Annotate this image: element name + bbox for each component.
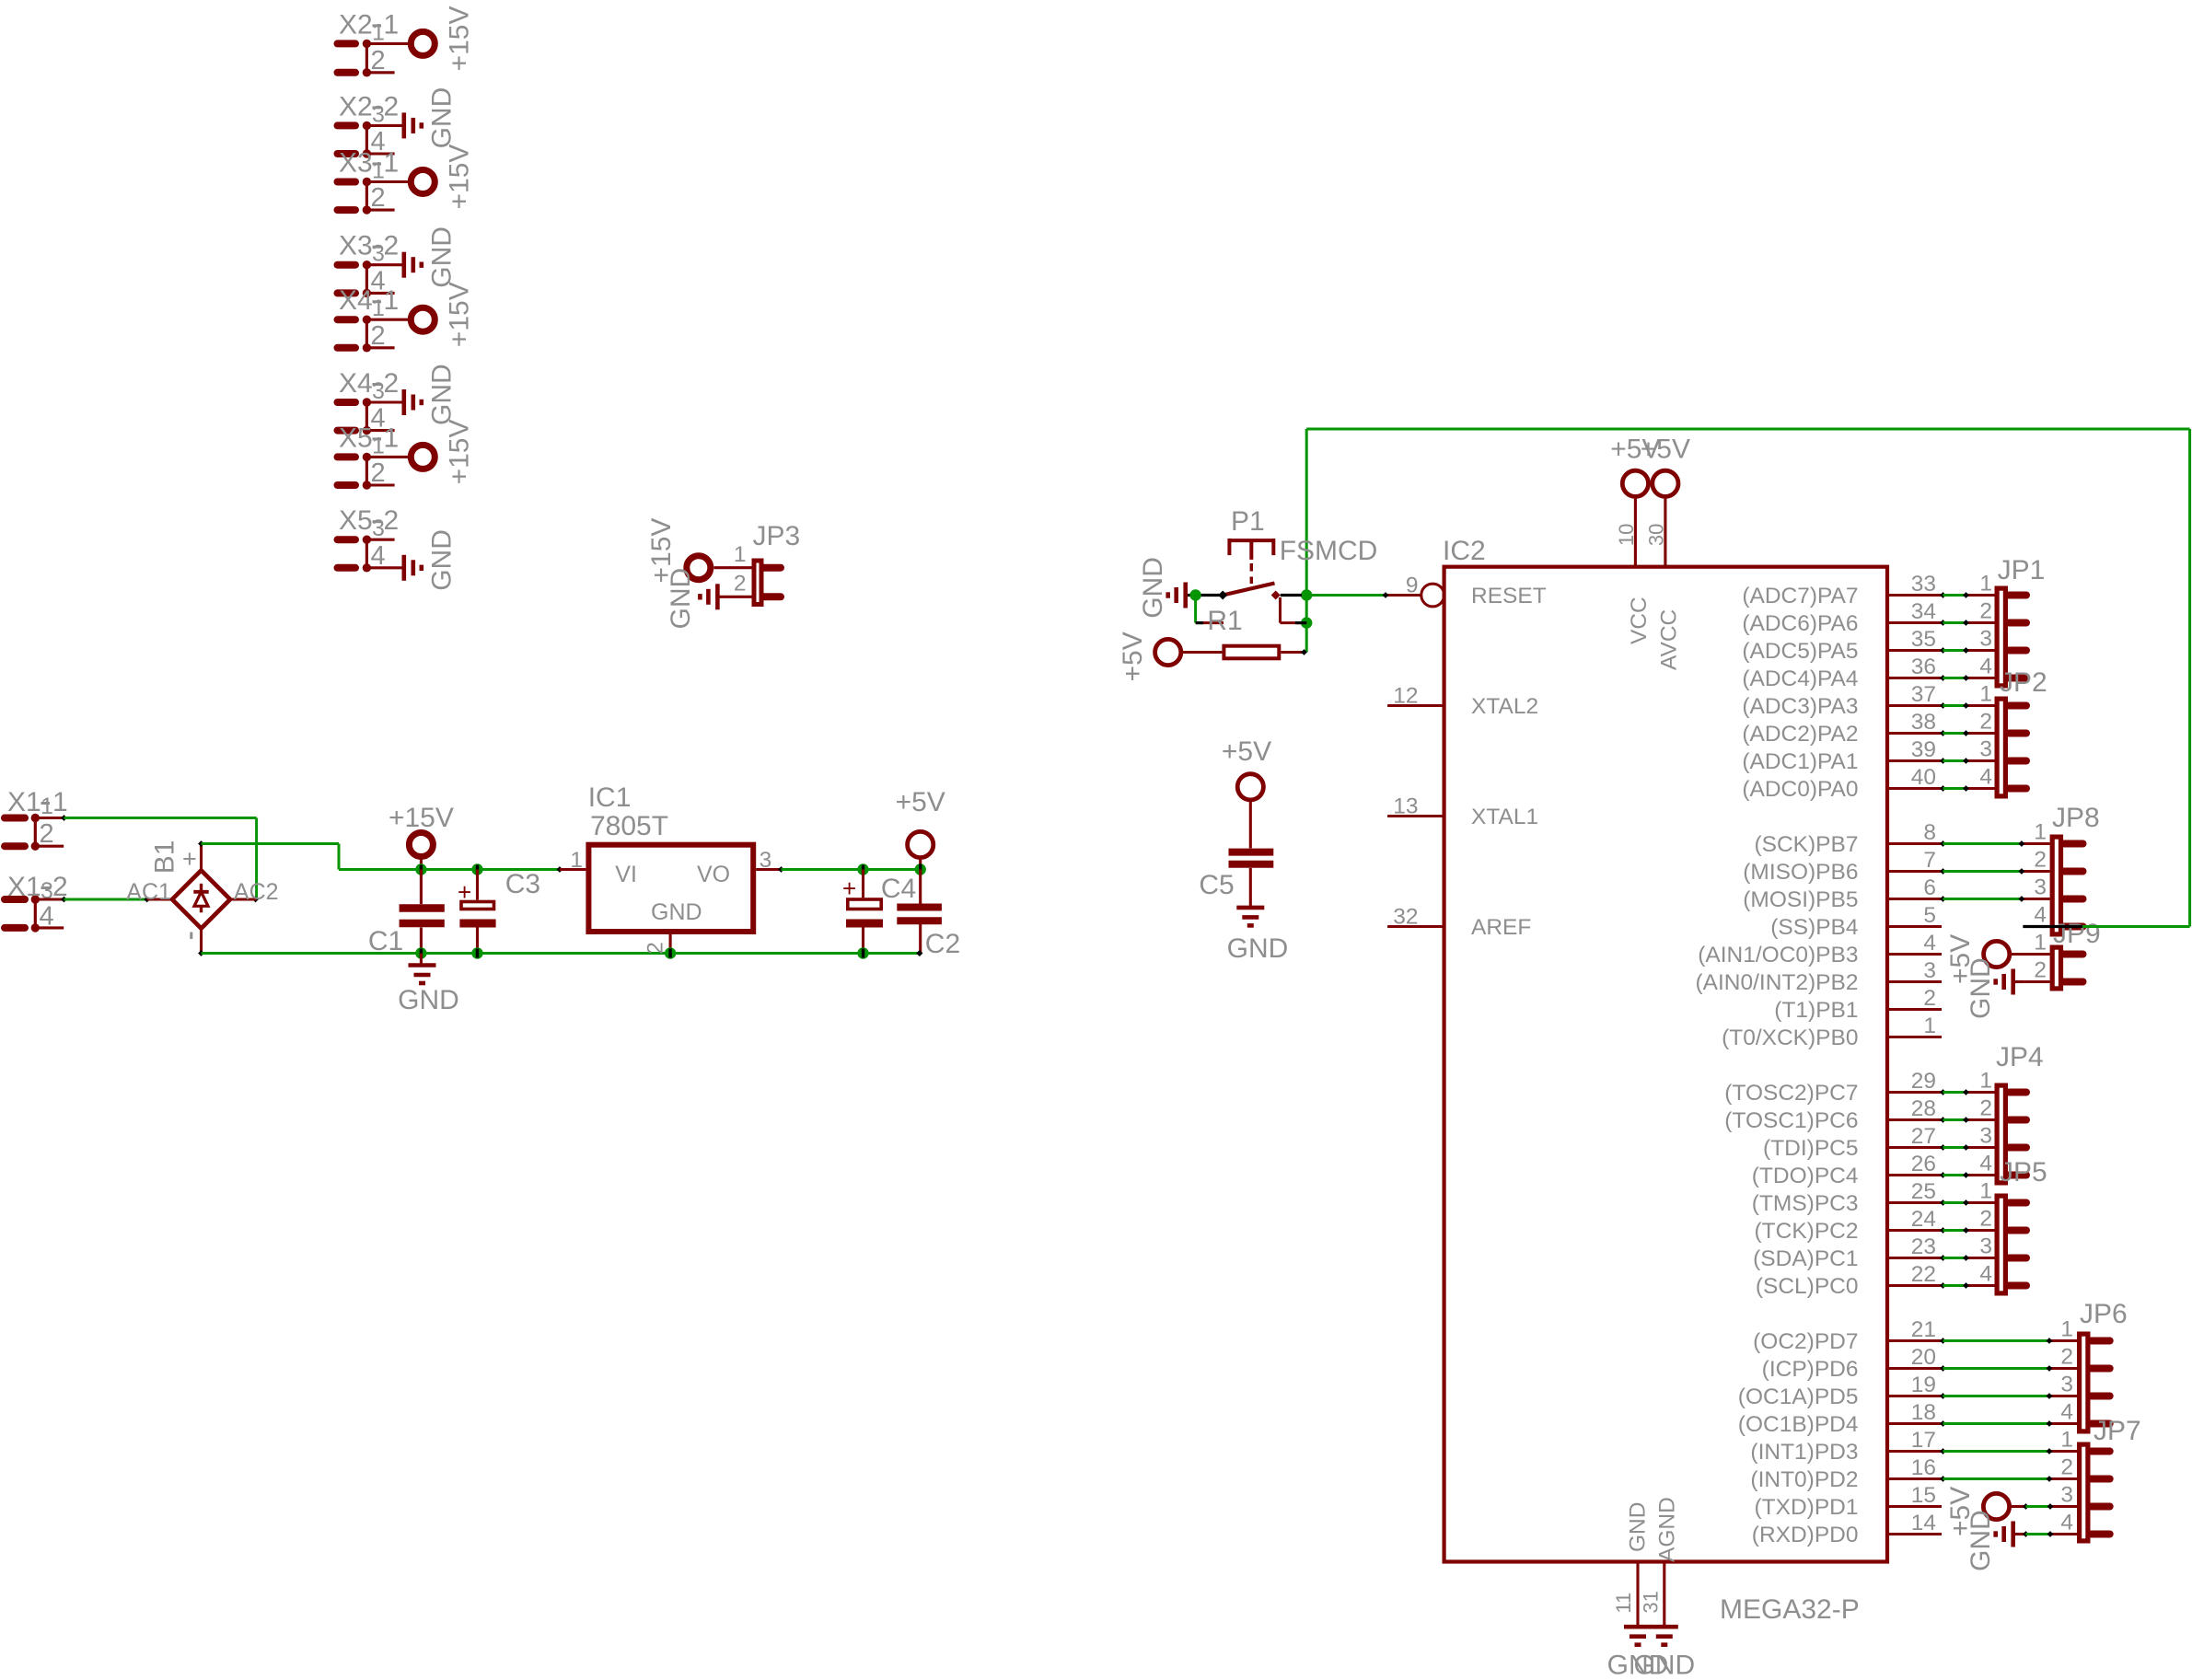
svg-text:5: 5 bbox=[1923, 903, 1936, 928]
svg-text:36: 36 bbox=[1911, 655, 1936, 679]
supply +15V at rail bbox=[409, 833, 433, 857]
svg-text:4: 4 bbox=[1979, 765, 1992, 790]
svg-text:2: 2 bbox=[371, 46, 386, 75]
svg-text:JP6: JP6 bbox=[2080, 1299, 2128, 1329]
svg-text:GND: GND bbox=[426, 364, 457, 425]
connector X5-1 pin stubs bbox=[338, 453, 356, 460]
svg-text:9: 9 bbox=[1406, 574, 1419, 598]
svg-text:JP9: JP9 bbox=[2053, 919, 2101, 949]
pin 4 of JP1 bbox=[1967, 677, 1995, 679]
svg-text:(ADC1)PA1: (ADC1)PA1 bbox=[1742, 749, 1858, 774]
svg-text:2: 2 bbox=[371, 183, 386, 213]
svg-text:39: 39 bbox=[1911, 737, 1936, 762]
wire X3-1 pin1 to +15V bbox=[366, 180, 408, 183]
capacitor C1 bbox=[420, 870, 423, 905]
ground at JP3 bbox=[715, 584, 720, 609]
junction IC1 pin2 bbox=[665, 947, 676, 958]
svg-text:4: 4 bbox=[2034, 903, 2047, 928]
pin 3 of JP6 bbox=[2051, 1395, 2078, 1397]
svg-text:15: 15 bbox=[1911, 1483, 1936, 1508]
svg-text:(SCL)PC0: (SCL)PC0 bbox=[1756, 1274, 1859, 1299]
wire RESET long net bbox=[1306, 428, 2189, 431]
wire X5-1 tie bbox=[365, 457, 368, 485]
svg-text:C3: C3 bbox=[505, 869, 540, 899]
wire X4-2 free pin line bbox=[366, 429, 394, 432]
svg-text:18: 18 bbox=[1911, 1400, 1936, 1425]
svg-text:3: 3 bbox=[2034, 875, 2047, 900]
svg-text:1: 1 bbox=[41, 794, 53, 819]
svg-text:23: 23 bbox=[1911, 1234, 1936, 1259]
wire X4-1 tie bbox=[365, 319, 368, 348]
pin 3 (AIN0/INT2)PB2 bbox=[1887, 980, 1942, 983]
pin 34 (ADC6)PA6 bbox=[1887, 621, 1942, 624]
svg-text:(TDO)PC4: (TDO)PC4 bbox=[1752, 1164, 1859, 1188]
svg-text:37: 37 bbox=[1911, 682, 1936, 707]
svg-text:32: 32 bbox=[1393, 905, 1418, 930]
svg-text:RESET: RESET bbox=[1471, 584, 1547, 608]
pin X1-2 pin3 line bbox=[35, 898, 63, 900]
pin 3 of JP4 bbox=[1967, 1146, 1995, 1149]
svg-text:JP3: JP3 bbox=[753, 521, 801, 551]
svg-text:AGND: AGND bbox=[1655, 1497, 1680, 1562]
svg-text:26: 26 bbox=[1911, 1152, 1936, 1176]
pin B1 AC1 bbox=[147, 898, 172, 900]
ground at P1 bbox=[1183, 583, 1188, 608]
junction C1 top bbox=[415, 863, 426, 875]
pin 24 (TCK)PC2 bbox=[1887, 1229, 1942, 1232]
pin 1 of JP5 bbox=[1967, 1201, 1995, 1204]
svg-text:+5V: +5V bbox=[1641, 434, 1690, 465]
pin 19 (OC1A)PD5 bbox=[1887, 1395, 1942, 1397]
svg-text:X3: X3 bbox=[339, 148, 373, 179]
svg-text:+: + bbox=[842, 875, 856, 902]
svg-text:10: 10 bbox=[1615, 524, 1638, 546]
svg-text:+15V: +15V bbox=[445, 6, 475, 71]
svg-text:+5V: +5V bbox=[896, 787, 945, 817]
pin 26 (TDO)PC4 bbox=[1887, 1174, 1942, 1176]
connector JP4 box bbox=[1997, 1085, 2005, 1183]
pin 35 (ADC5)PA5 bbox=[1887, 649, 1942, 652]
svg-text:1: 1 bbox=[384, 9, 400, 40]
svg-text:2: 2 bbox=[1979, 710, 1992, 735]
pin 7 (MISO)PB6 bbox=[1887, 870, 1942, 873]
svg-text:JP4: JP4 bbox=[1996, 1042, 2044, 1072]
connector X1-2 pin stubs bbox=[5, 896, 25, 903]
wire net to header bbox=[1940, 1172, 1946, 1178]
svg-text:3: 3 bbox=[1923, 958, 1936, 983]
svg-text:(T1)PB1: (T1)PB1 bbox=[1774, 998, 1858, 1023]
supply +15V at X5-1 bbox=[411, 445, 435, 469]
regulator IC1 box bbox=[588, 845, 753, 932]
pin X1-2 pin4 line bbox=[35, 926, 64, 929]
pin 11 GND bottom bbox=[1636, 1562, 1639, 1628]
svg-text:GND: GND bbox=[426, 226, 457, 288]
wire X2-1 pin1 to +15V bbox=[366, 42, 408, 45]
connector X3-1 pin stubs bbox=[338, 179, 356, 186]
supply +5V at JP9 bbox=[1984, 941, 2010, 967]
pin 18 (OC1B)PD4 bbox=[1887, 1422, 1942, 1425]
svg-text:GND: GND bbox=[1227, 933, 1289, 964]
connector X4-2 pin stubs bbox=[338, 399, 356, 406]
pin 1 of JP7 bbox=[2051, 1450, 2078, 1453]
svg-text:3: 3 bbox=[372, 241, 385, 267]
connector JP3 bbox=[754, 561, 761, 605]
svg-text:1: 1 bbox=[2060, 1428, 2073, 1453]
svg-text:2: 2 bbox=[2060, 1345, 2073, 1370]
wire net to JP8 bbox=[1940, 896, 1946, 902]
svg-text:(TMS)PC3: (TMS)PC3 bbox=[1752, 1191, 1859, 1216]
svg-text:+15V: +15V bbox=[445, 145, 475, 210]
pin 9 RESET bbox=[1386, 594, 1421, 597]
connector X2-2 pin stubs bbox=[338, 122, 356, 129]
svg-text:(ADC5)PA5: (ADC5)PA5 bbox=[1742, 639, 1858, 664]
capacitor C5 bbox=[1249, 800, 1252, 849]
svg-text:(ADC6)PA6: (ADC6)PA6 bbox=[1742, 611, 1858, 636]
wire +5V to JP7 pin3 bbox=[2023, 1503, 2029, 1510]
ground at X2-2 bbox=[401, 112, 406, 138]
svg-text:X1: X1 bbox=[7, 872, 41, 902]
svg-text:(AIN1/OC0)PB3: (AIN1/OC0)PB3 bbox=[1698, 943, 1858, 967]
pin 5 (SS)PB4 bbox=[1887, 925, 1942, 928]
svg-text:P1: P1 bbox=[1231, 506, 1265, 537]
svg-text:4: 4 bbox=[1979, 1152, 1992, 1176]
svg-text:2: 2 bbox=[1979, 1207, 1992, 1232]
wire net to header bbox=[1940, 1089, 1946, 1095]
pin 1 of JP8 bbox=[2023, 842, 2049, 845]
svg-text:1: 1 bbox=[570, 848, 583, 873]
wire X3-1 tie bbox=[365, 182, 368, 211]
supply +15V at X3-1 bbox=[411, 170, 435, 194]
connector X1-1 pin stubs bbox=[5, 815, 25, 822]
svg-text:(ADC0)PA0: (ADC0)PA0 bbox=[1742, 777, 1858, 802]
pin 38 (ADC2)PA2 bbox=[1887, 732, 1942, 735]
svg-text:JP2: JP2 bbox=[2000, 667, 2047, 698]
svg-text:3: 3 bbox=[1979, 1234, 1992, 1259]
svg-text:AREF: AREF bbox=[1471, 915, 1531, 940]
svg-text:1: 1 bbox=[734, 542, 747, 567]
svg-text:(OC1B)PD4: (OC1B)PD4 bbox=[1738, 1412, 1859, 1437]
pin B1 - down bbox=[200, 929, 203, 954]
ground at C1 bbox=[420, 954, 423, 966]
pin 27 (TDI)PC5 bbox=[1887, 1146, 1942, 1149]
pin 3 of JP5 bbox=[1967, 1257, 1995, 1259]
pin 2 of IC1 bbox=[669, 932, 672, 954]
pin 32 AREF bbox=[1387, 925, 1444, 928]
svg-text:GND: GND bbox=[1626, 1502, 1651, 1552]
svg-text:(OC1A)PD5: (OC1A)PD5 bbox=[1738, 1385, 1859, 1409]
wire X3-2 tie bbox=[365, 265, 368, 294]
label - of B1 bbox=[190, 933, 192, 940]
wire X4-2 tie bbox=[365, 402, 368, 431]
svg-text:6: 6 bbox=[1923, 875, 1936, 900]
pin 33 (ADC7)PA7 bbox=[1887, 594, 1942, 597]
svg-text:1: 1 bbox=[2060, 1317, 2073, 1342]
wire net to header bbox=[1940, 1199, 1946, 1206]
connector X2-1 pin stubs bbox=[338, 40, 356, 47]
pin 4 (AIN1/OC0)PB3 bbox=[1887, 953, 1942, 956]
rectifier B1 bbox=[172, 871, 230, 929]
wire net to header bbox=[1940, 1255, 1946, 1261]
svg-text:14: 14 bbox=[1911, 1511, 1936, 1535]
junction C4 bottom bbox=[857, 947, 868, 958]
svg-text:33: 33 bbox=[1911, 572, 1936, 597]
pin 29 (TOSC2)PC7 bbox=[1887, 1091, 1942, 1094]
wire X2-1 tie bbox=[365, 43, 368, 72]
svg-text:3: 3 bbox=[372, 378, 385, 404]
connector JP8 box bbox=[2052, 837, 2060, 934]
svg-text:3: 3 bbox=[2060, 1483, 2073, 1508]
svg-text:+5V: +5V bbox=[1118, 631, 1148, 681]
pin 15 (TXD)PD1 bbox=[1887, 1505, 1942, 1508]
pin 2 of JP4 bbox=[1967, 1118, 1995, 1121]
svg-text:4: 4 bbox=[1979, 655, 1992, 679]
ground at C5 bbox=[1236, 906, 1264, 910]
pin P1 left upper bbox=[1188, 594, 1223, 597]
connector X3-2 pin stubs bbox=[338, 261, 356, 269]
svg-text:17: 17 bbox=[1911, 1428, 1936, 1453]
pin 13 XTAL1 bbox=[1387, 815, 1444, 817]
svg-text:R1: R1 bbox=[1207, 606, 1242, 636]
wire B1+ to +15V rail bbox=[198, 840, 204, 847]
pin 21 (OC2)PD7 bbox=[1887, 1339, 1942, 1342]
wire X3-2 to GND bbox=[366, 263, 403, 266]
resistor R1 bbox=[1181, 651, 1223, 654]
pin 36 (ADC4)PA4 bbox=[1887, 677, 1942, 679]
wire net to header bbox=[1940, 675, 1946, 681]
svg-text:C4: C4 bbox=[881, 874, 916, 904]
svg-text:X4: X4 bbox=[339, 368, 373, 399]
svg-text:MEGA32-P: MEGA32-P bbox=[1720, 1594, 1860, 1625]
wire net to header bbox=[1940, 1282, 1946, 1289]
wire net to header bbox=[1940, 1227, 1946, 1234]
capacitor C2 bbox=[919, 870, 922, 904]
svg-text:GND: GND bbox=[426, 529, 457, 591]
svg-text:2: 2 bbox=[384, 231, 400, 261]
svg-text:1: 1 bbox=[52, 787, 68, 817]
svg-text:24: 24 bbox=[1911, 1207, 1936, 1232]
ground at X5-2 bbox=[401, 555, 406, 581]
pin 3 of JP8 bbox=[2023, 898, 2049, 900]
ground at JP9 bbox=[2011, 969, 2015, 995]
svg-text:7805T: 7805T bbox=[590, 811, 668, 841]
pin 8 (SCK)PB7 bbox=[1887, 842, 1942, 845]
wire X4-2 to GND bbox=[366, 400, 403, 403]
pin 1 of JP9 bbox=[2012, 953, 2050, 956]
pin 2 of JP8 bbox=[2023, 870, 2049, 873]
svg-text:2: 2 bbox=[384, 368, 400, 399]
supply +5V at C5 bbox=[1237, 774, 1263, 800]
svg-text:2: 2 bbox=[371, 458, 386, 488]
svg-text:2: 2 bbox=[2034, 958, 2047, 983]
pin 2 of JP6 bbox=[2051, 1367, 2078, 1370]
wire net to header bbox=[1940, 730, 1946, 736]
pin X1-1 pin2 line bbox=[35, 845, 64, 848]
wire X4-1 pin1 to +15V bbox=[366, 319, 408, 321]
svg-text:30: 30 bbox=[1644, 524, 1667, 546]
pin 1 of JP4 bbox=[1967, 1091, 1995, 1094]
connector X5-2 pin stubs bbox=[338, 536, 356, 543]
svg-text:GND: GND bbox=[398, 985, 459, 1015]
wire net to header bbox=[1940, 592, 1946, 598]
svg-text:20: 20 bbox=[1911, 1345, 1936, 1370]
wire VO to +5V rail bbox=[778, 866, 784, 873]
pin 4 of JP5 bbox=[1967, 1284, 1995, 1287]
svg-text:2: 2 bbox=[384, 91, 400, 122]
svg-text:AC1: AC1 bbox=[126, 879, 171, 905]
pin 40 (ADC0)PA0 bbox=[1887, 787, 1942, 790]
connector X4-1 pin stubs bbox=[338, 316, 356, 323]
svg-text:(SCK)PB7: (SCK)PB7 bbox=[1754, 832, 1858, 857]
svg-text:X3: X3 bbox=[339, 231, 373, 261]
svg-text:1: 1 bbox=[1923, 1014, 1936, 1038]
svg-text:X1: X1 bbox=[7, 787, 41, 817]
svg-text:3: 3 bbox=[760, 848, 772, 873]
pin P1 right lower L bbox=[1279, 597, 1282, 623]
svg-text:1: 1 bbox=[372, 295, 385, 321]
wire net to JP6/JP7 bbox=[1940, 1393, 1946, 1399]
pin 4 of JP8 bbox=[2023, 925, 2049, 928]
ground at JP7 bbox=[2011, 1522, 2015, 1547]
wire X3-2 free pin line bbox=[366, 292, 394, 295]
svg-text:FSMCD: FSMCD bbox=[1280, 536, 1378, 566]
wire GND to JP7 pin4 bbox=[2023, 1531, 2029, 1537]
svg-text:1: 1 bbox=[1979, 1179, 1992, 1204]
svg-text:4: 4 bbox=[2060, 1400, 2073, 1425]
svg-text:(TOSC1)PC6: (TOSC1)PC6 bbox=[1724, 1108, 1858, 1133]
svg-text:1: 1 bbox=[372, 19, 385, 45]
wire net to JP6/JP7 bbox=[1940, 1420, 1946, 1427]
pin 2 of JP7 bbox=[2051, 1477, 2078, 1480]
wire net to header bbox=[1940, 1117, 1946, 1123]
pin 1 of IC1 bbox=[560, 868, 586, 871]
svg-text:(INT0)PD2: (INT0)PD2 bbox=[1750, 1467, 1858, 1492]
supply +5V at JP7 bbox=[1983, 1493, 2009, 1519]
wire net to header bbox=[1940, 1144, 1946, 1151]
wire reset vertical bbox=[1305, 429, 1308, 653]
svg-text:X5: X5 bbox=[339, 423, 373, 453]
svg-text:+15V: +15V bbox=[445, 282, 475, 347]
connector JP6 box bbox=[2080, 1334, 2088, 1431]
ground at pin 31 bbox=[1651, 1625, 1678, 1629]
svg-text:JP8: JP8 bbox=[2052, 803, 2100, 833]
svg-text:29: 29 bbox=[1911, 1069, 1936, 1094]
svg-text:2: 2 bbox=[644, 942, 668, 955]
svg-text:3: 3 bbox=[372, 101, 385, 127]
svg-text:GND: GND bbox=[666, 568, 696, 630]
wire RESET net over JP8 pin4 bbox=[2023, 925, 2082, 928]
junction C1 bottom bbox=[415, 947, 426, 958]
ground at pin 11 bbox=[1624, 1625, 1652, 1629]
supply +15V at JP3 bbox=[687, 556, 711, 580]
pin 3 of IC1 bbox=[756, 868, 781, 871]
svg-text:(RXD)PD0: (RXD)PD0 bbox=[1752, 1523, 1859, 1547]
svg-text:GND: GND bbox=[1633, 1651, 1695, 1680]
pin 2 of JP1 bbox=[1967, 621, 1995, 624]
svg-text:1: 1 bbox=[2034, 931, 2047, 956]
svg-text:VO: VO bbox=[697, 862, 730, 887]
svg-text:1: 1 bbox=[1979, 682, 1992, 707]
wire X5-2 free pin line bbox=[366, 539, 394, 541]
connector JP5 box bbox=[1997, 1196, 2005, 1293]
svg-text:C2: C2 bbox=[925, 929, 960, 959]
wire net to JP8 bbox=[1940, 840, 1946, 847]
svg-text:2: 2 bbox=[2034, 848, 2047, 873]
pin 17 (INT1)PD3 bbox=[1887, 1450, 1942, 1453]
wire net to JP6/JP7 bbox=[1940, 1476, 1946, 1482]
pin 4 of JP4 bbox=[1967, 1174, 1995, 1176]
capacitor C4 bbox=[862, 870, 864, 898]
svg-text:7: 7 bbox=[1923, 848, 1936, 873]
svg-text:2: 2 bbox=[2060, 1455, 2073, 1480]
svg-text:3: 3 bbox=[372, 516, 385, 541]
wire net to JP6/JP7 bbox=[1940, 1365, 1946, 1372]
svg-text:JP7: JP7 bbox=[2093, 1416, 2141, 1446]
pin 25 (TMS)PC3 bbox=[1887, 1201, 1942, 1204]
svg-text:(ADC2)PA2: (ADC2)PA2 bbox=[1742, 722, 1858, 747]
svg-text:+5V: +5V bbox=[1222, 736, 1271, 767]
pin X1-1 pin1 line bbox=[35, 817, 63, 819]
svg-text:4: 4 bbox=[2060, 1511, 2073, 1535]
svg-text:X4: X4 bbox=[339, 285, 373, 316]
pin 2 of JP9 bbox=[2024, 980, 2049, 983]
svg-text:JP1: JP1 bbox=[1998, 555, 2046, 585]
svg-text:2: 2 bbox=[40, 819, 54, 849]
pin 3 of JP2 bbox=[1967, 759, 1995, 762]
svg-text:27: 27 bbox=[1911, 1124, 1936, 1149]
wire X1-1 to B1 AC2 net bbox=[61, 815, 67, 821]
svg-text:12: 12 bbox=[1393, 684, 1418, 709]
svg-text:(ADC4)PA4: (ADC4)PA4 bbox=[1742, 666, 1858, 691]
svg-text:(TOSC2)PC7: (TOSC2)PC7 bbox=[1724, 1081, 1858, 1106]
ground at X4-2 bbox=[401, 389, 406, 415]
pin 1 of JP2 bbox=[1967, 704, 1995, 707]
pin 39 (ADC1)PA1 bbox=[1887, 759, 1942, 762]
wire net to header bbox=[1940, 785, 1946, 792]
wire X2-2 to GND bbox=[366, 124, 403, 127]
svg-text:VI: VI bbox=[615, 862, 637, 887]
svg-text:(AIN0/INT2)PB2: (AIN0/INT2)PB2 bbox=[1696, 970, 1859, 995]
svg-text:3: 3 bbox=[1979, 737, 1992, 762]
wire GND rail bbox=[198, 950, 204, 956]
wire X5-1 pin2 line bbox=[366, 483, 394, 486]
svg-text:XTAL1: XTAL1 bbox=[1471, 805, 1538, 829]
svg-text:40: 40 bbox=[1911, 765, 1936, 790]
svg-text:31: 31 bbox=[1640, 1591, 1663, 1613]
svg-text:34: 34 bbox=[1911, 599, 1936, 624]
pin 3 of JP7 bbox=[2051, 1505, 2078, 1508]
pin 4 of JP7 bbox=[2051, 1533, 2078, 1535]
svg-text:11: 11 bbox=[1612, 1593, 1635, 1614]
wire net to header bbox=[1940, 647, 1946, 654]
pin 28 (TOSC1)PC6 bbox=[1887, 1118, 1942, 1121]
pin 1 of JP1 bbox=[1967, 594, 1995, 597]
wire X3-1 pin2 line bbox=[366, 209, 394, 212]
svg-text:JP5: JP5 bbox=[2000, 1157, 2047, 1188]
pin 14 (RXD)PD0 bbox=[1887, 1533, 1942, 1535]
pin 23 (SDA)PC1 bbox=[1887, 1257, 1942, 1259]
svg-text:2: 2 bbox=[371, 321, 386, 351]
wire X2-1 pin2 line bbox=[366, 71, 394, 74]
svg-text:(TXD)PD1: (TXD)PD1 bbox=[1755, 1495, 1859, 1520]
pin P1 right upper bbox=[1302, 594, 1306, 597]
svg-text:2: 2 bbox=[52, 872, 68, 902]
svg-text:1: 1 bbox=[1979, 1069, 1992, 1094]
svg-text:2: 2 bbox=[734, 572, 747, 597]
svg-text:GND: GND bbox=[651, 899, 702, 925]
svg-text:VCC: VCC bbox=[1627, 597, 1652, 644]
supply +5V at rail bbox=[908, 831, 934, 857]
junction reset upper bbox=[1301, 589, 1312, 600]
